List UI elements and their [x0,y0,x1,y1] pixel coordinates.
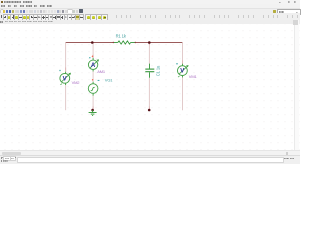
toolbar row 1 [0,8,300,15]
wire right vertical [182,43,184,111]
wire top left segment [66,42,114,44]
svg-text:C1 1u: C1 1u [156,65,161,76]
resistor R1 [113,41,136,44]
horizontal scrollbar [0,150,300,155]
wire left vertical [65,43,67,111]
tick strip [116,15,117,18]
wire top right segment [136,42,183,44]
capacitor C1 [145,64,154,78]
title bar [0,0,300,4]
wire capacitor branch bottom [148,78,150,109]
svg-text:VM2: VM2 [72,80,81,85]
tab row [0,20,300,25]
wire capacitor branch top [148,43,150,64]
svg-text:A: A [91,63,96,69]
voltmeter VM2 [59,70,71,85]
svg-text:R1 1k: R1 1k [116,34,127,39]
schematic canvas [0,24,300,150]
menu bar [0,4,300,8]
svg-text:V: V [63,76,67,82]
ammeter AM1 [88,56,99,70]
voltage generator VG1 [88,79,99,93]
right side: olive icon + zoom combo [273,10,276,13]
ground [89,110,97,116]
node junction bottom capacitor [148,109,151,112]
svg-text:V: V [180,69,184,75]
node junction top-left [91,41,94,44]
status bar [0,155,300,165]
node junction bottom ground [91,109,94,112]
wire branch1 vertical top [92,43,94,61]
wire between AM1 and VG1 [92,69,94,84]
vertical scrollbar [294,20,299,150]
svg-text:AM1: AM1 [97,69,106,74]
svg-text:VM1: VM1 [189,74,198,79]
node junction top-mid [148,41,151,44]
wire below VG1 [92,93,94,109]
toolbar row 2: component buttons [0,13,300,19]
svg-text:VG1: VG1 [105,77,113,82]
voltmeter VM1 [176,63,188,77]
